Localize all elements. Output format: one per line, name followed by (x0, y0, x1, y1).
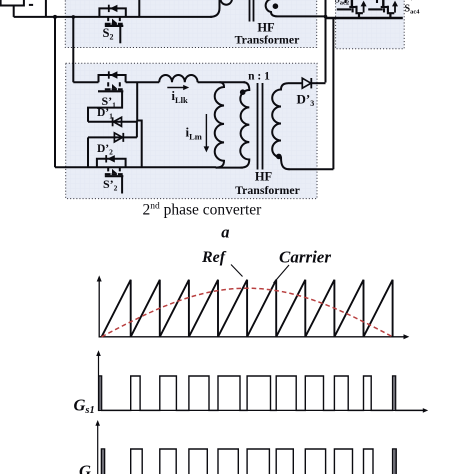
wire: riser at x139 to cropped top (138, 0, 140, 17)
polarity dot T2 secondary (276, 154, 282, 160)
reference half-sine (red dashed) (102, 288, 393, 337)
svg-text:Transformer: Transformer (235, 33, 300, 47)
wire: source box to bus (13, 6, 15, 17)
axis (carrier plot) (99, 280, 404, 337)
diode D'2 (88, 133, 137, 142)
current arrow iLlk (167, 87, 184, 89)
wire: secondary top to D'3 (288, 82, 302, 84)
wire: bus down to S'1 (73, 17, 98, 82)
transistor S'ac4 (cropped) (368, 0, 395, 18)
svg-text:a: a (221, 222, 229, 241)
transformer T2 core (258, 83, 263, 170)
box: 2nd phase converter (66, 63, 317, 198)
svg-text:2nd phase converter: 2nd phase converter (143, 201, 263, 218)
wire: Llk to primary (198, 81, 245, 83)
transformer T1 secondary winding (266, 0, 326, 16)
transformer T1 core (250, 0, 254, 22)
svg-text:n : 1: n : 1 (248, 70, 270, 82)
wire: T1/D'3 node riser (325, 0, 327, 83)
svg-text:Ref: Ref (201, 249, 227, 266)
inductor Lm (magnetizing) (215, 82, 224, 167)
wire: left return bus down (54, 17, 56, 167)
current arrow iLm (205, 114, 207, 148)
inductor Llk (leakage) (159, 75, 197, 82)
gate pulse train Gs2 (cropped) (101, 449, 396, 474)
diode D'1 (88, 117, 137, 126)
gate pulse Gs1 edge spikes (99, 377, 101, 411)
transistor S'2 (97, 155, 126, 171)
svg-text:Gs1: Gs1 (74, 396, 95, 417)
svg-text:HF: HF (255, 170, 273, 184)
transistor Sac2 (cropped) (337, 0, 364, 18)
wire: rail into primary bottom (216, 167, 243, 169)
svg-text:’: ’ (411, 0, 414, 6)
svg-text:G: G (79, 462, 91, 474)
wire: secondary bottom to riser (289, 168, 334, 170)
transistor S'1 (99, 71, 126, 86)
carrier sawtooth (102, 280, 393, 337)
leader Carrier (274, 265, 290, 283)
svg-text:Carrier: Carrier (279, 247, 331, 266)
source box (negative terminal, cropped top-left) (0, 0, 24, 6)
transistor S2 (99, 5, 125, 21)
wire: top wire S'1 to Llk (126, 81, 160, 83)
wire: S'1 source to D'1 (88, 91, 122, 122)
wire: main bus (left) (14, 16, 212, 18)
svg-text:Transformer: Transformer (235, 183, 300, 197)
box: ac-switch cell (top right, cropped) (336, 0, 405, 49)
junction: bus / left return (53, 15, 57, 19)
polarity dot T1 (273, 3, 279, 9)
wire: clamp node riser (top wire to D'1/D'2, down to rail) (137, 82, 142, 167)
polarity dot T2 primary (240, 89, 246, 95)
transformer T1 primary lead (210, 0, 220, 17)
wire: D'2 anode down to rail (87, 137, 89, 167)
diode D'3 (302, 78, 325, 88)
axis Gs2 (cropped) (97, 424, 99, 474)
gate pulse train Gs1 (99, 376, 424, 410)
leader Ref (231, 265, 243, 277)
axis Gs1 (99, 355, 424, 410)
wire: secondary-return riser (332, 18, 334, 169)
transformer T2 primary winding (240, 82, 249, 167)
box: 1st phase converter (top, cropped) (65, 0, 316, 48)
transformer T2 secondary winding (272, 83, 289, 169)
minus sign of source (29, 4, 33, 6)
wire: riser to cropped top (45, 0, 47, 17)
label Sac2 (cropped) (335, 0, 350, 7)
gate pulse Gs2 edge spikes (102, 450, 104, 474)
junction: bus / S'1 branch (72, 15, 76, 19)
wire: ac cell bottom rail (326, 17, 403, 19)
wire: bottom rail of 2nd phase (55, 166, 216, 168)
